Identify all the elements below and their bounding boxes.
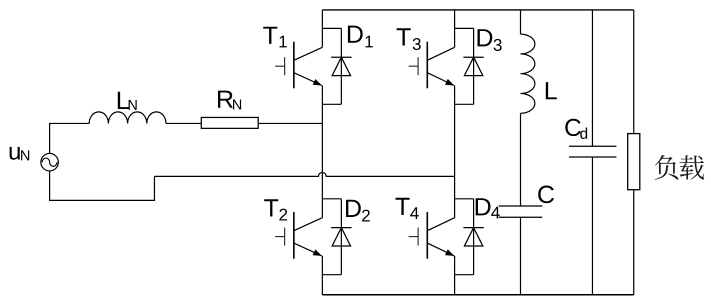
- wire emitter jog T4/D4: [455, 274, 474, 276]
- transistor T1 body bar: [293, 42, 295, 89]
- label T1: [263, 27, 277, 44]
- resistor RN: [201, 117, 258, 128]
- label uN: [10, 147, 20, 160]
- transistor T2 body bar: [293, 212, 295, 259]
- label RN: [218, 91, 233, 108]
- wire L to C: [520, 113, 522, 206]
- transistor T3 emitter lead with arrow: [427, 73, 454, 86]
- wire collector jog T1/D1: [322, 27, 341, 29]
- transistor T2 collector lead: [294, 218, 323, 231]
- wire top rail to load: [633, 10, 635, 134]
- wire top rail to L: [520, 10, 522, 34]
- wire top DC rail: [322, 9, 633, 11]
- inductor LN: [89, 112, 166, 124]
- wire load to bottom rail: [633, 190, 635, 295]
- wire Cd to bottom rail: [591, 157, 593, 295]
- inductor L: [521, 34, 535, 113]
- wire source top to LN: [50, 123, 90, 153]
- diode D1: [340, 28, 342, 104]
- label 负载 load: [655, 155, 704, 180]
- wire RN to left leg midpoint: [259, 122, 322, 124]
- label T2: [264, 199, 278, 216]
- transistor T2 emitter lead with arrow: [294, 243, 322, 256]
- transistor T3 body bar: [426, 42, 428, 89]
- transistor T3 gate lead: [409, 65, 419, 67]
- transistor T3 gate bar: [417, 57, 419, 75]
- diode D3: [473, 28, 475, 104]
- source uN circle: [41, 153, 59, 171]
- label T4: [396, 198, 410, 215]
- wire bottom DC rail: [322, 294, 633, 296]
- label Cd: [565, 119, 581, 136]
- label C: [538, 186, 554, 204]
- transistor T2 gate bar: [284, 228, 286, 246]
- transistor T1 collector lead: [294, 47, 323, 60]
- transistor T1 gate bar: [284, 57, 286, 75]
- wire collector jog T4/D4: [455, 198, 474, 200]
- label D3: [478, 29, 493, 46]
- transistor T1 gate lead: [275, 65, 285, 67]
- transistor T1 emitter lead with arrow: [294, 73, 322, 86]
- wire LN to RN: [166, 122, 201, 124]
- label T3: [397, 28, 411, 45]
- transistor T4 body bar: [426, 212, 428, 259]
- wire source bottom return: [50, 171, 155, 200]
- wire emitter jog T2/D2: [322, 274, 341, 276]
- capacitor Cd: [569, 146, 616, 157]
- transistor T4 gate lead: [409, 236, 419, 238]
- transistor T2 gate lead: [275, 236, 285, 238]
- label D4: [476, 198, 491, 215]
- diode D2: [340, 199, 342, 275]
- wire return to right leg midpoint with hopover: [154, 172, 454, 176]
- label L: [546, 82, 557, 99]
- load resistor rectangle: [628, 134, 640, 190]
- label LN: [118, 92, 129, 109]
- wire top rail to Cd: [591, 10, 593, 146]
- transistor T4 gate bar: [417, 228, 419, 246]
- wire right bridge leg: [454, 10, 456, 295]
- wire left bridge leg: [321, 10, 323, 295]
- label D1: [348, 26, 363, 43]
- wire C to bottom rail: [520, 217, 522, 295]
- capacitor C: [499, 206, 543, 217]
- transistor T4 emitter lead with arrow: [427, 243, 454, 256]
- label D2: [346, 200, 361, 217]
- wire collector jog T3/D3: [455, 27, 474, 29]
- diode D4: [473, 199, 475, 275]
- source uN sine wave: [42, 158, 57, 166]
- transistor T4 collector lead: [427, 218, 454, 231]
- wire emitter jog T3/D3: [455, 103, 474, 105]
- wire emitter jog T1/D1: [322, 103, 341, 105]
- wire collector jog T2/D2: [322, 198, 341, 200]
- transistor T3 collector lead: [427, 47, 454, 60]
